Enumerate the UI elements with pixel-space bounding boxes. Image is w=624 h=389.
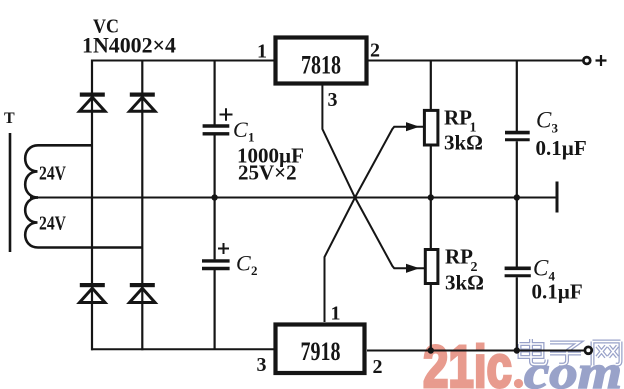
potentiometer RP2 body [425,250,438,284]
output - terminal [585,347,592,354]
svg-text:21ic: 21ic [423,334,512,389]
svg-text:24V: 24V [39,163,66,185]
junction dot C3C4 column / ground rail [514,194,520,200]
svg-text:0.1µF: 0.1µF [532,280,583,304]
wire bottom rail left (bridge - to 7918 pin 3) [91,348,274,350]
svg-text:25V×2: 25V×2 [238,161,297,185]
svg-text:1: 1 [248,130,255,145]
diode D2 (top right) [130,93,156,112]
label C1 [233,117,255,145]
svg-text:1: 1 [257,41,267,63]
output + terminal [583,55,606,66]
svg-text:C: C [533,256,549,281]
transformer secondary winding upper 24V [25,145,92,197]
wire 7918 pin 1 to RP1 wiper (diagonal with arrow) [325,122,424,322]
capacitor C2 [202,261,230,269]
svg-text:T: T [4,110,15,127]
wire top rail right (7818 pin 2 to + output) [369,60,585,62]
svg-text:0.1µF: 0.1µF [536,136,587,160]
svg-text:C: C [236,251,251,276]
svg-text:2: 2 [370,40,380,62]
svg-text:7918: 7918 [301,337,341,366]
transformer secondary winding lower 24V [25,198,142,248]
potentiometer RP1 body [424,110,438,145]
svg-text:3kΩ: 3kΩ [444,131,483,155]
diode D3 (bottom left) [80,283,106,303]
regulator U2 7918 box [276,325,365,374]
svg-text:2: 2 [251,263,258,278]
svg-text:C: C [233,117,248,142]
capacitor C1 [203,126,230,134]
svg-text:1: 1 [331,303,341,325]
svg-text:1N4002×4: 1N4002×4 [82,33,176,58]
wire mid ground rail [30,197,556,199]
label C3 [536,108,559,136]
watermark logo 21ic.com (background) [423,334,622,389]
wire C3/C4 column [516,61,518,351]
transformer T core [9,133,12,252]
polarity + of C2 [218,243,229,254]
svg-text:3: 3 [552,121,559,136]
svg-text:3: 3 [328,89,338,111]
wire C1/C2 column [214,61,216,350]
wire top rail left (bridge + to 7818 pin 1) [91,60,274,62]
svg-text:RP: RP [445,245,473,269]
svg-text:24V: 24V [39,213,66,235]
diode D1 (top left) [80,93,106,112]
label RP1 [444,106,477,136]
svg-text:2: 2 [373,356,383,378]
svg-text:3kΩ: 3kΩ [445,271,484,295]
junction dot C column / ground rail [211,194,217,200]
ground terminal bar [556,182,559,213]
junction dot RP column / ground rail [428,194,434,200]
wire bridge left vertical [91,60,93,351]
polarity + of C1 [220,108,233,121]
label C2 [236,251,258,279]
capacitor C4 [505,268,531,276]
capacitor C3 [505,133,530,140]
svg-text:C: C [536,108,552,133]
wire bridge right vertical [141,61,143,351]
wire bottom rail right (7918 pin 2 to - output) [367,350,586,352]
wire RP1/RP2 column [430,61,432,351]
svg-text:RP: RP [444,106,472,130]
junction dot RP column / bottom rail [428,347,434,353]
junction dot C4 column / bottom rail [514,347,520,353]
diode D4 (bottom right) [130,283,156,303]
label RP2 [445,245,478,276]
svg-text:7818: 7818 [301,51,341,80]
wire 7818 pin 3 to RP2 wiper (diagonal with arrow) [322,86,424,273]
svg-text:3: 3 [257,354,267,376]
regulator U1 7818 box [276,38,367,84]
label C4 [533,256,556,284]
